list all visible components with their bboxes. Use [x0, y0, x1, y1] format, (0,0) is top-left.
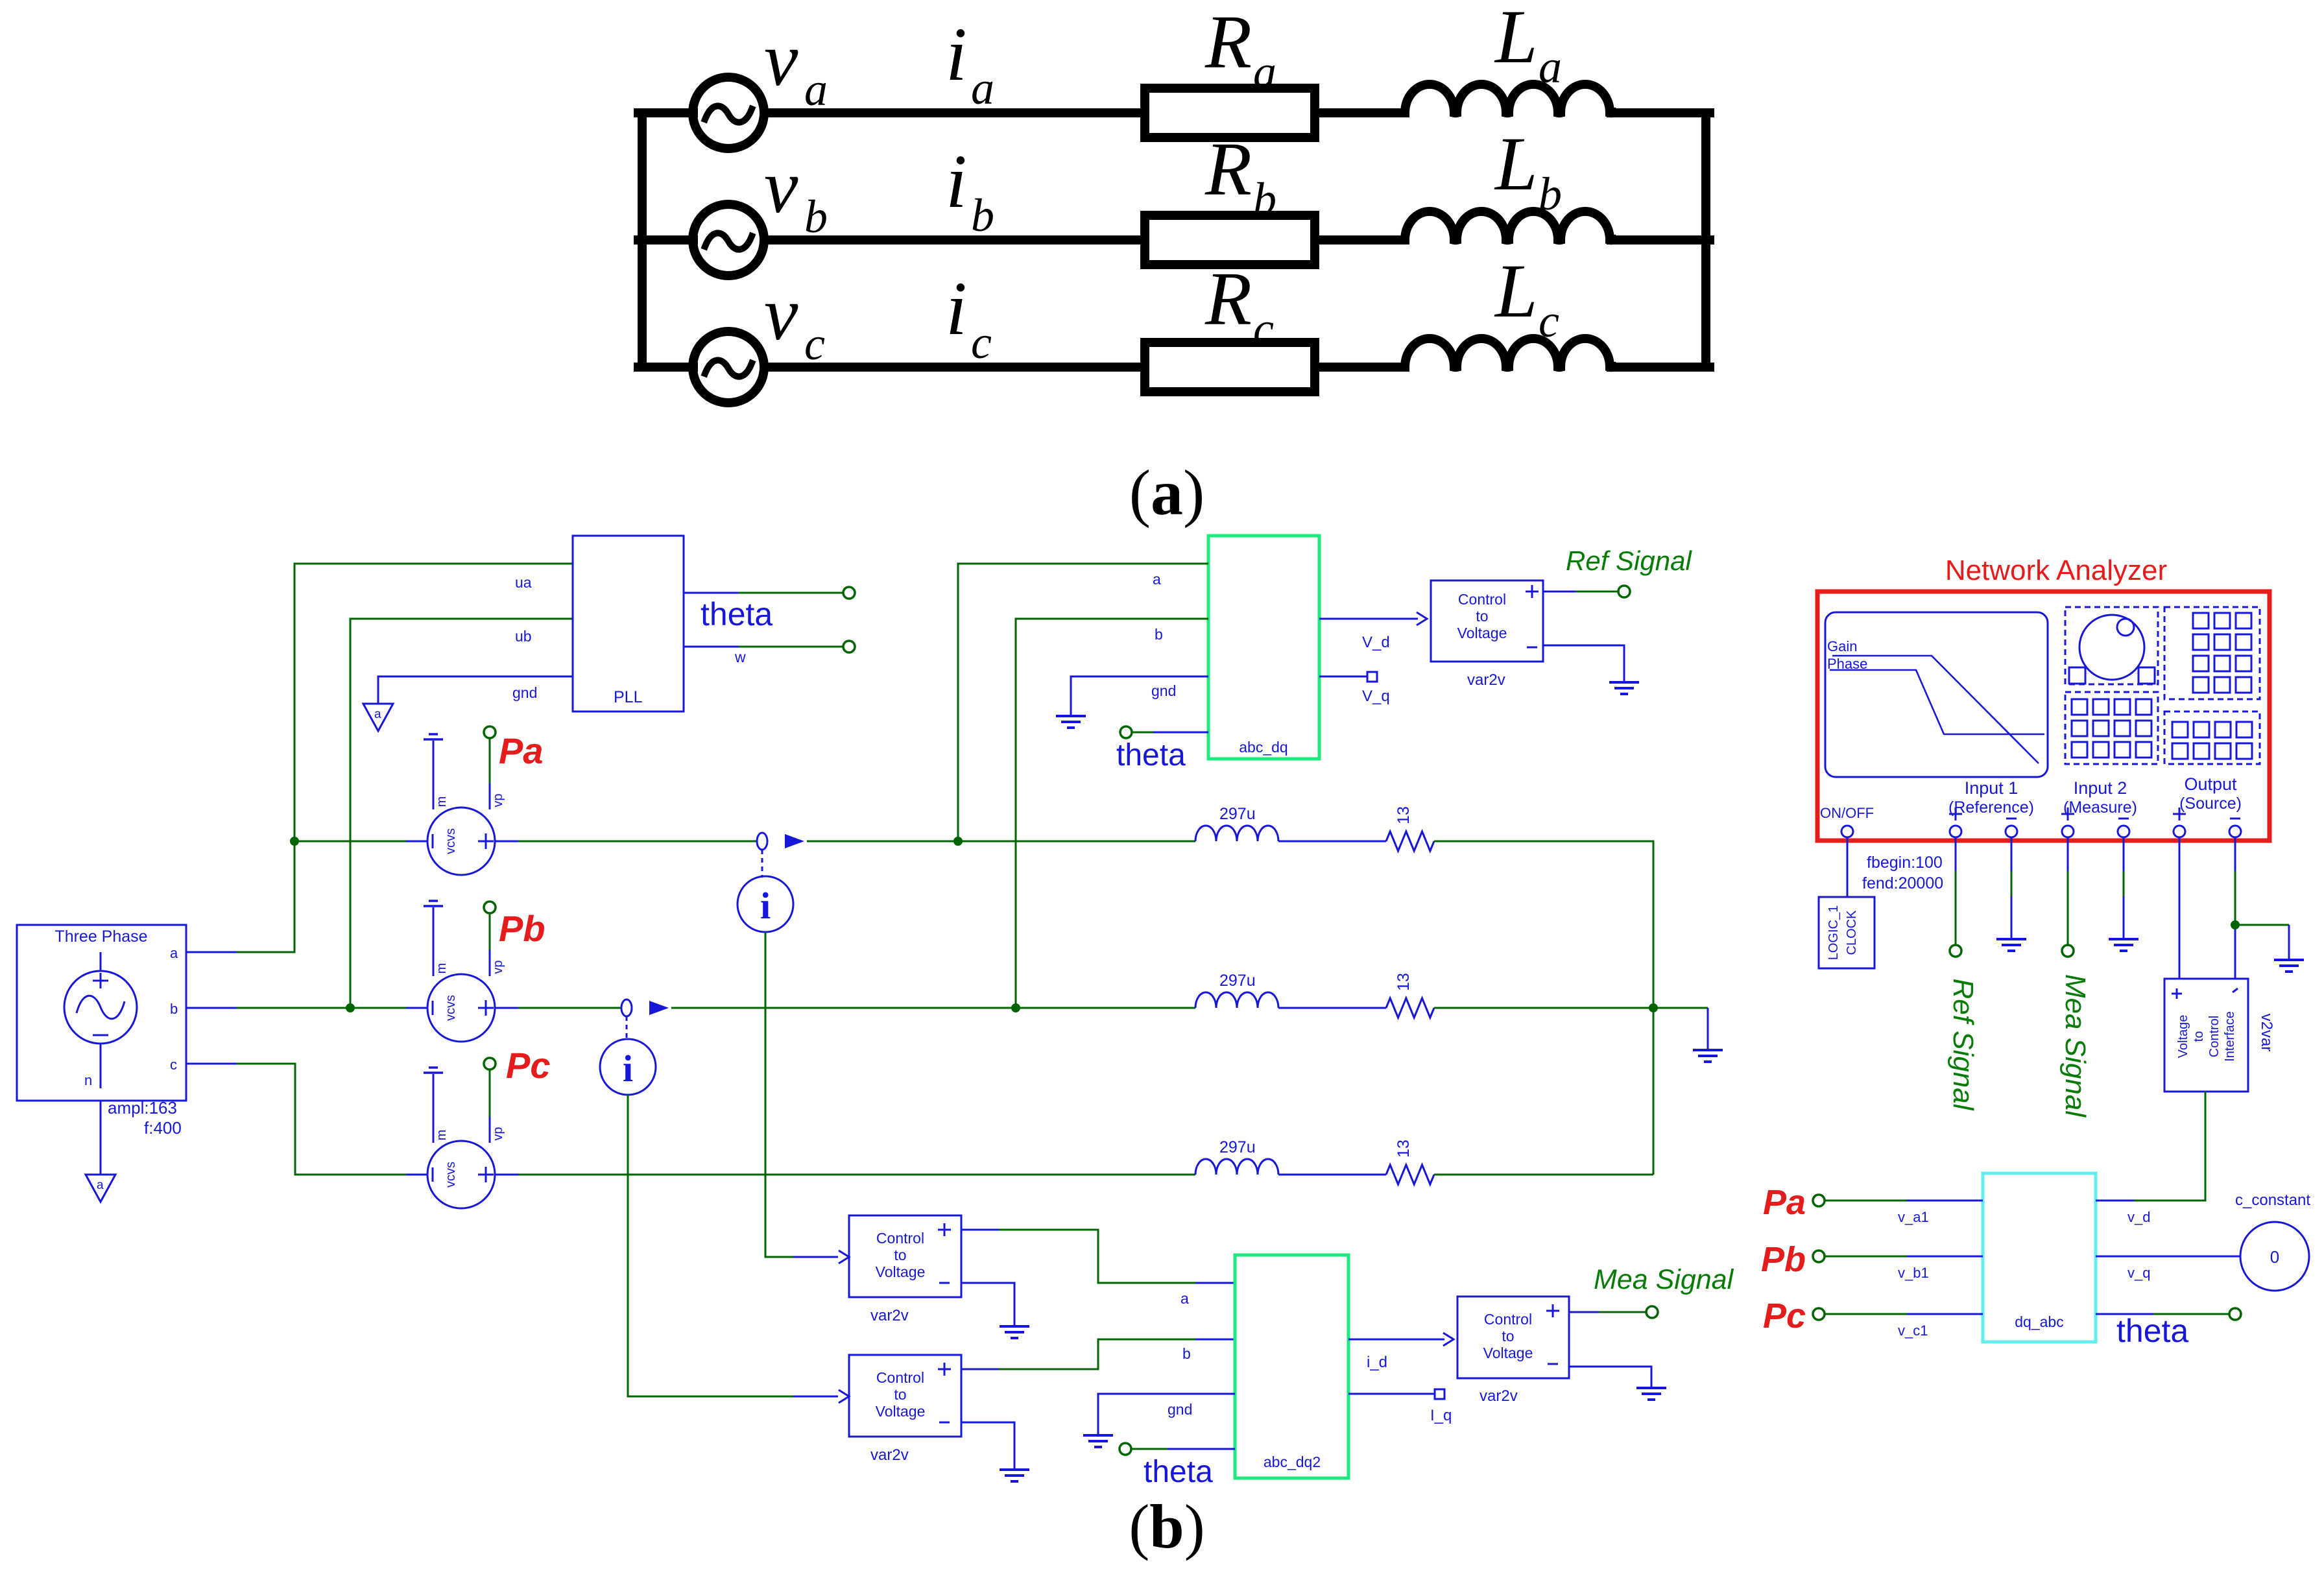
svg-text:a: a [1153, 571, 1161, 588]
pin label v_b1 [1898, 1265, 1929, 1281]
svg-text:a: a [971, 62, 994, 114]
svg-text:i: i [946, 12, 967, 97]
square terminal V_q [1367, 672, 1377, 682]
label va [764, 17, 828, 115]
resistor Ra [1145, 88, 1315, 137]
wire phase a net [186, 564, 573, 952]
label Ref Signal (rotated) [1947, 978, 1979, 1110]
svg-text:Ref Signal: Ref Signal [1566, 545, 1692, 576]
var2v block 3 [1457, 1297, 1569, 1378]
svg-text:Control: Control [876, 1369, 924, 1386]
wire row b: left segment [350, 1007, 427, 1009]
wire phase c net [186, 1064, 427, 1175]
pin label gnd (PLL) [512, 684, 537, 701]
PLL block [573, 536, 684, 711]
network analyzer NA1 box [1817, 592, 2270, 841]
terminal Pb [484, 902, 496, 913]
svg-text:b: b [1253, 173, 1276, 225]
vcvs source Pc driver [427, 1141, 495, 1208]
svg-text:i: i [760, 885, 771, 927]
wire theta to abc_dq2 [1131, 1448, 1235, 1450]
wire abc_dq b input [1016, 619, 1208, 1008]
svg-text:m: m [435, 796, 449, 807]
logic clock block [1819, 897, 1875, 968]
ground a for PLL [363, 704, 393, 731]
svg-text:c: c [971, 317, 992, 368]
pin label I_q [1430, 1407, 1452, 1424]
value 297u row b [1219, 972, 1256, 990]
ground Input2- [2109, 939, 2138, 951]
label theta (dq_abc) [2116, 1313, 2188, 1349]
svg-text:Mea Signal: Mea Signal [2059, 974, 2091, 1118]
gain curve [1832, 656, 2039, 763]
svg-text:13: 13 [1395, 806, 1413, 824]
svg-text:vp: vp [491, 1127, 505, 1140]
wire v_c1 [1824, 1313, 1983, 1315]
wire Output+ to v2var [2179, 837, 2181, 979]
wire row a resistor to inductor [1315, 108, 1405, 117]
svg-text:Mea Signal: Mea Signal [1594, 1264, 1734, 1295]
svg-text:to: to [894, 1386, 906, 1403]
svg-text:fend:20000: fend:20000 [1862, 874, 1943, 892]
dashed link sensor a [761, 850, 763, 878]
svg-text:Input 1: Input 1 [1965, 778, 2019, 798]
NA keypad middle [2065, 692, 2158, 764]
wire var2v3 minus to ground [1569, 1367, 1651, 1388]
svg-text:c: c [170, 1057, 177, 1073]
svg-text:dq_abc: dq_abc [2015, 1313, 2063, 1330]
svg-text:297u: 297u [1219, 1138, 1256, 1156]
pin label b (abc_dq) [1155, 626, 1163, 643]
svg-text:CLOCK: CLOCK [1845, 910, 1859, 955]
label Rc [1204, 256, 1274, 355]
wire var2v2 minus to ground [961, 1422, 1014, 1470]
current arrow row b [649, 1001, 669, 1015]
svg-text:gnd: gnd [512, 684, 537, 701]
wire row c source to resistor [764, 363, 1145, 372]
label Input 2 (Measure) [2063, 778, 2137, 817]
label c_constant [2235, 1191, 2310, 1209]
wire row b inductor to right bus [1611, 235, 1710, 245]
wire v2var output to v_d [2134, 1092, 2205, 1201]
wire row c to right corner [1434, 1174, 1653, 1176]
svg-text:gnd: gnd [1168, 1401, 1192, 1418]
wire row a: sensor to junction [807, 841, 1195, 843]
svg-text:Pa: Pa [1763, 1183, 1806, 1222]
wire var2v1 minus to ground [961, 1283, 1014, 1326]
ammeter i (row a) [737, 876, 793, 932]
svg-text:a: a [1253, 46, 1276, 98]
svg-text:c: c [1539, 295, 1559, 347]
svg-text:Pb: Pb [1761, 1240, 1806, 1279]
node row a to abc_dq a [953, 837, 963, 846]
svg-text:LOGIC_1: LOGIC_1 [1827, 905, 1841, 960]
wire stub to ground right [1653, 1008, 1708, 1050]
wire row b resistor to inductor [1315, 235, 1405, 245]
svg-text:ON/OFF: ON/OFF [1820, 805, 1874, 821]
pin label ua [515, 574, 532, 591]
svg-text:ampl:163: ampl:163 [108, 1098, 177, 1118]
svg-text:Control: Control [876, 1230, 924, 1247]
svg-text:v_b1: v_b1 [1898, 1265, 1929, 1281]
svg-text:Pc: Pc [506, 1045, 551, 1086]
svg-text:to: to [894, 1247, 906, 1263]
svg-text:c_constant: c_constant [2235, 1191, 2310, 1209]
wire V_q output [1319, 676, 1367, 678]
abc_dq2 block [1235, 1255, 1348, 1478]
svg-text:f:400: f:400 [144, 1118, 182, 1138]
three-phase source U1 [17, 925, 186, 1101]
svg-text:Network Analyzer: Network Analyzer [1945, 555, 2167, 586]
inductor 297u row c [1195, 1159, 1278, 1175]
bar ground above vcvs a [424, 734, 443, 739]
svg-text:Voltage: Voltage [1457, 625, 1507, 641]
svg-text:Gain: Gain [1827, 638, 1857, 654]
label La [1494, 0, 1562, 93]
terminal Pc (dq_abc) [1813, 1308, 1825, 1320]
svg-text:L: L [1494, 248, 1538, 333]
pin label i_d [1367, 1354, 1387, 1371]
wire v_b1 [1824, 1256, 1983, 1258]
label var2v (2) [870, 1446, 909, 1464]
terminal Ref Signal (NA) [1950, 945, 1961, 957]
label v2var [2258, 1014, 2275, 1052]
wire row b to right [1434, 1007, 1653, 1009]
svg-text:a: a [1539, 41, 1562, 93]
var2v block 2 [839, 1355, 961, 1437]
label Lc [1494, 248, 1559, 347]
label Input 1 (Reference) [1948, 778, 2034, 817]
var2v block (Ref Signal) [1431, 580, 1543, 662]
svg-text:b: b [1155, 626, 1163, 643]
value 297u row c [1219, 1138, 1256, 1156]
svg-text:Voltage: Voltage [2176, 1015, 2190, 1058]
ground Input1- [1996, 939, 2026, 951]
resistor Rc [1145, 342, 1315, 392]
svg-text:m: m [435, 963, 449, 974]
terminal Mea Signal [1646, 1306, 1658, 1318]
svg-text:(Measure): (Measure) [2063, 798, 2137, 817]
ammeter i (row b) [600, 1039, 656, 1095]
svg-text:n: n [84, 1072, 92, 1088]
svg-text:b: b [1539, 168, 1562, 220]
wire Input1+ down [1955, 837, 1957, 945]
svg-text:i: i [946, 266, 967, 351]
svg-text:Input 2: Input 2 [2074, 778, 2127, 798]
ground var2v2 [1000, 1470, 1029, 1481]
pin label gnd (abc_dq) [1151, 682, 1176, 699]
svg-text:theta: theta [1116, 738, 1186, 772]
wire row b left [638, 235, 693, 245]
svg-text:vcvs: vcvs [444, 1162, 458, 1188]
ground var2v top [1609, 682, 1639, 694]
pin label ub [515, 628, 532, 645]
svg-text:v: v [764, 17, 798, 102]
svg-text:v_c1: v_c1 [1898, 1322, 1928, 1339]
wire junction to ground right [2235, 925, 2289, 960]
terminal Mea Signal (NA) [2062, 945, 2074, 957]
svg-text:Three Phase: Three Phase [54, 927, 147, 946]
value 297u row a [1219, 805, 1256, 823]
svg-text:Ref Signal: Ref Signal [1947, 978, 1979, 1110]
label Phase [1827, 656, 1867, 672]
label Ref Signal [1566, 545, 1692, 576]
label Mea Signal (rotated) [2059, 974, 2091, 1118]
ground abc_dq2 [1083, 1435, 1113, 1447]
label ia [946, 12, 994, 114]
wire abc_dq2 gnd [1098, 1394, 1235, 1435]
label theta (PLL) [701, 596, 773, 632]
value label ampl:163 f:400 [108, 1098, 182, 1138]
ground var2v1 [1000, 1326, 1029, 1338]
label var2v (3) [1479, 1387, 1518, 1405]
pin label a (abc_dq2) [1180, 1290, 1189, 1307]
svg-text:w: w [734, 649, 746, 665]
bar ground above vcvs c [424, 1068, 443, 1073]
v2var block [2164, 979, 2248, 1092]
label Rb [1204, 126, 1276, 225]
svg-text:vcvs: vcvs [444, 995, 458, 1021]
terminal Pa [484, 726, 496, 738]
svg-text:13: 13 [1395, 973, 1413, 991]
node phase b junction [346, 1003, 355, 1012]
svg-text:v_a1: v_a1 [1898, 1209, 1929, 1225]
svg-text:L: L [1494, 121, 1538, 206]
svg-text:b: b [971, 189, 994, 241]
wire row c resistor to inductor [1315, 363, 1405, 372]
svg-text:Pb: Pb [499, 908, 545, 949]
pin label v_a1 [1898, 1209, 1929, 1225]
wire Input1- to ground [2011, 837, 2013, 939]
label var2v (1) [870, 1307, 909, 1324]
label vc [764, 271, 825, 370]
svg-text:297u: 297u [1219, 972, 1256, 990]
node row b to abc_dq b [1011, 1003, 1020, 1012]
NA knob panel [2065, 607, 2158, 684]
ground a below source [86, 1175, 115, 1202]
wire Input2- to ground [2123, 837, 2125, 939]
svg-text:R: R [1204, 0, 1252, 84]
svg-text:var2v: var2v [870, 1446, 909, 1464]
terminal theta (abc_dq) [1120, 726, 1132, 738]
inductor Lc [1405, 339, 1612, 367]
terminal Ref Signal [1618, 586, 1630, 597]
node Output- junction [2231, 920, 2240, 929]
wire theta output (dq_abc) [2096, 1313, 2230, 1315]
wire row c inductor to right bus [1611, 363, 1710, 372]
caption (a) [1129, 457, 1205, 529]
terminal theta [843, 587, 855, 599]
terminal Pa (dq_abc) [1813, 1195, 1825, 1206]
svg-text:a: a [804, 64, 828, 115]
wire V_d output [1319, 612, 1427, 625]
wire ammeter b to var2v 2 [628, 1095, 838, 1396]
ground abc_dq [1056, 716, 1086, 728]
svg-text:V_d: V_d [1362, 634, 1390, 651]
svg-text:var2v: var2v [1479, 1387, 1518, 1405]
svg-text:(b): (b) [1129, 1492, 1204, 1561]
c_constant source [2240, 1222, 2309, 1291]
svg-text:Voltage: Voltage [876, 1403, 926, 1420]
pin m of vcvs b [433, 907, 449, 976]
svg-text:297u: 297u [1219, 805, 1256, 823]
svg-text:v_d: v_d [2127, 1209, 2150, 1225]
var2v block 1 [839, 1215, 961, 1297]
NA pin plus/minus marks [1949, 807, 2240, 820]
label Pc (red) [506, 1045, 551, 1086]
pin vp of vcvs b [490, 913, 505, 976]
svg-text:R: R [1204, 256, 1252, 341]
svg-text:Interface: Interface [2223, 1011, 2237, 1062]
svg-text:c: c [1253, 303, 1274, 355]
wire w output [684, 646, 844, 648]
terminal Pc [484, 1058, 496, 1070]
svg-text:vp: vp [491, 793, 505, 807]
pin label v_d [2127, 1209, 2150, 1225]
dashed link sensor b [626, 1016, 628, 1039]
wire row b source to resistor [764, 235, 1145, 245]
svg-text:m: m [435, 1130, 449, 1141]
label Mea Signal (bottom) [1594, 1264, 1734, 1295]
wire i_d output [1348, 1333, 1454, 1346]
inductor 297u row b [1195, 992, 1278, 1008]
svg-text:b: b [170, 1001, 178, 1017]
svg-text:V_q: V_q [1362, 687, 1390, 705]
svg-text:Pc: Pc [1763, 1297, 1806, 1335]
pin m of vcvs a [433, 741, 449, 809]
ground right of row b [1693, 1050, 1723, 1062]
label Pc red (dq_abc) [1763, 1297, 1806, 1335]
terminal theta (abc_dq2) [1120, 1443, 1131, 1455]
vcvs source Pb driver [427, 974, 495, 1042]
wire ON/OFF to clock [1847, 837, 1849, 897]
svg-text:gnd: gnd [1151, 682, 1176, 699]
wire abc_dq gnd input [1071, 676, 1208, 716]
wire row b: vcvs to sensor [495, 1007, 621, 1009]
svg-text:13: 13 [1395, 1140, 1413, 1158]
svg-text:I_q: I_q [1430, 1407, 1452, 1424]
svg-text:theta: theta [1144, 1455, 1213, 1489]
wire row a inductor to right bus [1611, 108, 1710, 117]
ground var2v3 [1636, 1388, 1666, 1400]
pin label V_d [1362, 634, 1390, 651]
vcvs source Pa driver [427, 807, 495, 875]
wire row b mid [1278, 1007, 1386, 1009]
wire I_q output [1348, 1393, 1435, 1395]
svg-text:c: c [804, 318, 825, 370]
label Ra [1204, 0, 1276, 98]
wire Ref Signal output [1543, 591, 1619, 593]
label Output (Source) [2179, 774, 2242, 813]
label Lb [1494, 121, 1562, 220]
current sensor flag row b [621, 999, 632, 1016]
svg-text:(Source): (Source) [2179, 795, 2242, 813]
current sensor flag row a [757, 833, 767, 850]
label var2v (top) [1467, 671, 1505, 689]
dq_abc block [1983, 1173, 2096, 1342]
svg-text:var2v: var2v [1467, 671, 1505, 689]
svg-text:v2var: v2var [2258, 1014, 2275, 1052]
svg-text:i: i [946, 139, 967, 224]
svg-text:Output: Output [2184, 774, 2237, 794]
label Pb red (dq_abc) [1761, 1240, 1806, 1279]
wire n to ground [100, 1101, 102, 1174]
square terminal I_q [1435, 1389, 1444, 1399]
label Pb (red) [499, 908, 545, 949]
pin vp of vcvs c [490, 1069, 505, 1143]
svg-text:theta: theta [2116, 1313, 2188, 1349]
pin m of vcvs c [433, 1074, 449, 1143]
wire PLL gnd [378, 676, 573, 704]
wire Input2+ down [2067, 837, 2069, 945]
value 13 row c [1395, 1140, 1413, 1158]
terminal theta (dq_abc) [2229, 1308, 2241, 1320]
pin label gnd (abc_dq2) [1168, 1401, 1192, 1418]
NA keypad bottom right [2164, 711, 2260, 764]
svg-text:var2v: var2v [870, 1307, 909, 1324]
wire v_q to c_constant [2096, 1256, 2240, 1258]
wire ammeter a to var2v 1 [765, 932, 838, 1257]
wire abc_dq a input [958, 564, 1208, 841]
pin label v_q [2127, 1265, 2150, 1281]
svg-text:abc_dq: abc_dq [1239, 739, 1288, 756]
wire theta to abc_dq [1132, 732, 1208, 734]
svg-text:abc_dq2: abc_dq2 [1264, 1453, 1321, 1470]
terminal w [843, 641, 855, 652]
pin label b (abc_dq2) [1182, 1345, 1191, 1362]
resistor 13 row a [1386, 831, 1434, 851]
label ON/OFF [1820, 805, 1874, 821]
svg-text:Control: Control [2207, 1016, 2222, 1057]
svg-text:ub: ub [515, 628, 532, 645]
left bus bar [638, 113, 647, 367]
wire Output- to v2var [2234, 837, 2236, 979]
wire row c left [638, 363, 693, 372]
wire row a left [638, 108, 693, 117]
svg-text:v: v [764, 144, 798, 229]
svg-text:fbegin:100: fbegin:100 [1867, 854, 1943, 872]
wire theta output [684, 592, 844, 594]
label Pa red (dq_abc) [1763, 1183, 1806, 1222]
svg-text:a: a [1180, 1290, 1189, 1307]
pin label v_c1 [1898, 1322, 1928, 1339]
label theta (abc_dq2) [1144, 1455, 1213, 1489]
label ib [946, 139, 994, 241]
svg-text:a: a [97, 1178, 104, 1192]
caption (b) [1129, 1492, 1204, 1561]
AC source vb [693, 204, 764, 276]
wire var2v minus to ground [1543, 645, 1624, 682]
wire var2v2 plus to abc_dq2 b [961, 1339, 1235, 1369]
right bus bar [1701, 113, 1710, 367]
terminal Pb (dq_abc) [1813, 1250, 1825, 1262]
pin label a (abc_dq) [1153, 571, 1161, 588]
wire row c mid [1278, 1174, 1386, 1176]
inductor 297u row a [1195, 826, 1278, 841]
svg-text:theta: theta [701, 596, 773, 632]
svg-text:to: to [1476, 608, 1488, 625]
node rows junction right [1649, 1003, 1658, 1012]
wire row a mid [1278, 841, 1386, 843]
resistor Rb [1145, 215, 1315, 265]
wire row a: vcvs to sensor [495, 841, 758, 843]
wire row b: sensor to inductor [671, 1007, 1195, 1009]
svg-text:0: 0 [2270, 1247, 2279, 1267]
resistor 13 row b [1386, 998, 1434, 1018]
svg-text:a: a [170, 945, 178, 961]
wire row a to right corner [1434, 841, 1653, 1175]
label vb [764, 144, 828, 243]
